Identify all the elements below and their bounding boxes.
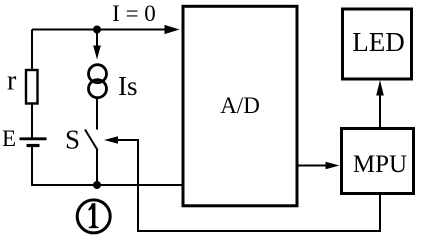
- wire left vertical upper (through resistor): [31, 30, 33, 138]
- wire A/D to MPU: [297, 165, 326, 167]
- resistor r body: [26, 70, 38, 104]
- block MPU: [342, 129, 414, 194]
- arrowhead into current source: [93, 46, 101, 60]
- wire current source to switch: [96, 99, 98, 130]
- svg-text:S: S: [65, 125, 80, 155]
- wire bottom: [31, 184, 182, 186]
- svg-text:MPU: MPU: [353, 151, 407, 178]
- node 1 circle marker: [77, 200, 110, 233]
- wire MPU to LED: [379, 95, 381, 127]
- svg-text:r: r: [7, 66, 17, 97]
- wire from top node down to current source: [96, 30, 98, 47]
- block A/D: [183, 6, 297, 206]
- node junction dot bottom: [93, 181, 101, 189]
- wire switch to bottom node: [96, 149, 98, 185]
- wire top (node to A/D input): [32, 29, 166, 31]
- block LED: [343, 9, 412, 79]
- arrowhead into A/D: [165, 25, 180, 34]
- svg-text:I = 0: I = 0: [112, 1, 156, 26]
- arrowhead into MPU: [326, 162, 340, 170]
- svg-text:A/D: A/D: [220, 93, 260, 118]
- current source Is lower circle: [89, 80, 107, 98]
- switch S blade: [85, 130, 98, 151]
- node 1 digit: [88, 203, 98, 228]
- svg-text:LED: LED: [352, 27, 404, 57]
- svg-text:Is: Is: [118, 71, 138, 101]
- wire control from MPU to switch: [117, 140, 380, 231]
- battery E long plate: [20, 137, 47, 140]
- arrowhead control arrow at switch: [104, 136, 118, 144]
- wire left vertical lower (battery to bottom): [31, 147, 33, 186]
- arrowhead into LED: [376, 80, 384, 96]
- svg-text:E: E: [2, 126, 16, 151]
- node junction dot top: [93, 26, 101, 34]
- battery E short plate: [27, 144, 40, 147]
- current source Is upper circle: [89, 65, 107, 83]
